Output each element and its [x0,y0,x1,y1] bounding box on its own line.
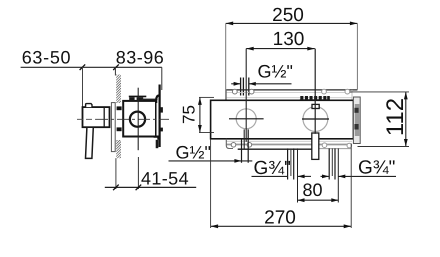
ext 250 right [356,23,358,89]
tick at handle face [80,64,86,70]
G3/4 pipe right [329,148,335,179]
right cap inner [355,104,360,136]
screw notch bottom 3 [322,143,327,148]
arrow 250 left [226,22,234,26]
body top cap plate [129,95,147,97]
screw notch top 3 [322,89,327,94]
arrow 80 right [331,198,338,202]
left crosshair horizontal [229,118,264,120]
dim line 112 [405,92,407,147]
shared dim line 63-50 / 83-96 [21,66,162,68]
svg-text:63-50: 63-50 [22,48,72,68]
handle top bump [86,104,92,108]
arrow 112 bottom [404,139,408,147]
bracket tab upper [160,107,163,112]
ext/centerline middle valve [314,49,316,134]
svg-text:83-96: 83-96 [116,48,165,68]
left valve circle [236,109,256,129]
extension line left (handle front) [82,67,84,107]
ext 112 bottom [358,146,410,148]
G3/4 pipe left ext [297,148,299,202]
screw notch top 1 [232,89,237,94]
G3/4 pipe right inner [331,148,333,176]
dim line 80 [298,199,339,201]
extension to 41-54 dim [137,157,139,189]
middle valve circle [303,107,328,132]
dim line 75 [199,97,201,132]
arrow 75 top [198,97,202,105]
wall face line lower [115,158,117,189]
seal nut lower [117,127,122,131]
top leg right [137,97,144,101]
middle stem pipe [312,133,319,159]
bracket top curl [156,95,159,103]
wall hatch lower [116,140,121,158]
leader G1/2 top right segment [249,83,292,85]
top ledge [142,98,158,100]
ext 270 left [210,139,212,228]
middle crosshair horizontal [302,118,329,120]
arrow onto right pipe (from left) [321,175,330,177]
screw notch bottom 1 [231,143,236,148]
screw notch bottom 2 [247,143,252,148]
tick at wall [113,185,119,191]
handle grip [86,127,94,158]
leader G3/4 left underline [252,175,288,177]
seal nut upper [117,106,122,110]
arrow 130 left [246,47,254,51]
leader G1/2 left [169,160,253,162]
G3/4 pipe left [288,148,294,179]
arrow 75 bottom [198,125,202,133]
top leg left [129,97,134,101]
handle body [83,107,110,127]
top plate edge [226,89,357,91]
G1/2 stub verticals [241,78,249,96]
ext 75 bottom [199,132,214,134]
mounting bracket (side, right) [159,85,161,148]
arrow onto left pipe (from right) [298,175,311,177]
right cap tab upper [354,108,358,113]
plate left end [225,90,227,100]
screw notch top 4 [345,89,350,94]
bracket tab lower [160,128,163,132]
centerline vertical (side view) [137,88,139,151]
svg-text:G¾": G¾" [358,157,395,178]
arrow 270 right [344,224,352,228]
main body (front) [211,100,354,139]
arrow G1/2 left [234,159,241,163]
ext 112 top [350,91,409,93]
centerline horizontal (side view) [77,118,96,120]
svg-text:75: 75 [179,105,198,124]
cartridge teeth row [300,96,330,100]
svg-text:G½": G½" [176,143,211,163]
ext 250 left [225,23,227,99]
bracket gray edge [156,103,158,137]
screw notch bottom 4 [347,143,352,148]
G3/4 pipe left inner [290,148,292,176]
left valve pipe inner [243,129,245,148]
arrow 130 right [307,47,315,51]
svg-text:80: 80 [302,180,322,200]
svg-text:112: 112 [382,98,409,136]
svg-text:G½": G½" [258,62,293,82]
bracket foot screw [156,140,159,148]
ext 75 top [199,96,214,98]
left valve pipe outer [242,129,249,162]
svg-text:41-54: 41-54 [141,168,189,188]
arrow 80 left [298,198,305,202]
connection circle (side) [130,112,145,127]
tick at wall face [113,64,119,70]
middle top notch [312,104,319,108]
ext/centerline left valve [245,49,247,142]
G3/4 pipe right ext [337,148,339,202]
dim line 270 [211,225,352,227]
dim line 41-54 [105,186,196,188]
rosette plate [111,103,115,152]
dim line 250 [226,22,358,24]
ext 270 right [350,144,352,228]
bracket foot [154,137,159,140]
arrow 270 left [211,224,219,228]
extension stub at wall face [114,67,116,75]
wall hatch upper [116,75,121,104]
valve body (side) [123,101,156,137]
lower body edge gray right [319,148,351,150]
handle inner line [103,107,105,127]
svg-text:130: 130 [273,29,305,50]
arrow G3/4 right [338,175,345,179]
bottom rail gray lines [226,141,352,143]
leader G1/2 top left segment [231,83,240,85]
extension line right 83-96 [161,67,163,90]
arrow onto stub left [234,82,241,86]
leader G3/4 right [338,175,396,177]
svg-text:270: 270 [264,207,296,228]
bottom rail edge [226,144,352,146]
dim line 130 [246,48,315,50]
bottom rail left cap [226,139,233,149]
plate gray lines [226,92,352,97]
right end cap [353,97,360,144]
right cap tab lower [354,124,358,130]
arrow 250 right [350,22,358,26]
arrow 112 top [404,92,408,100]
arrow onto stub right [249,82,256,86]
lower body edge dark [238,148,312,150]
screw notch top 2 [249,89,254,94]
tick at valve center [136,185,142,191]
